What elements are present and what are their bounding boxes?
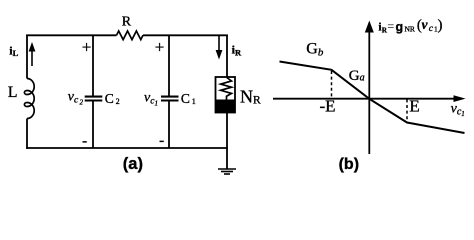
svg-text:+: +: [82, 37, 92, 56]
svg-text:R: R: [122, 15, 132, 30]
wire C1 branch lower: [168, 102, 170, 149]
wire left lower: [26, 119, 28, 149]
svg-text:E: E: [409, 96, 419, 115]
graph b: horizontal axis vC1: [273, 95, 466, 102]
svg-text:=: =: [387, 19, 394, 33]
svg-text:NR: NR: [405, 25, 415, 34]
svg-text:C1: C1: [181, 91, 196, 106]
svg-text:-: -: [82, 133, 87, 149]
wire right upper: [226, 35, 228, 78]
svg-text:-: -: [159, 133, 164, 149]
axis label formula iR = gNR(vC1): [378, 17, 442, 35]
graph b: vertical axis iR: [365, 21, 374, 155]
svg-text:g: g: [396, 20, 404, 34]
svg-text:NR: NR: [240, 86, 261, 106]
svg-text:C2: C2: [105, 91, 120, 106]
svg-text:(a): (a): [123, 155, 143, 173]
svg-text:iR: iR: [232, 43, 242, 58]
dashed line -E: [331, 71, 333, 98]
svg-text:L: L: [8, 84, 18, 101]
capacitor C2 plates: [85, 97, 103, 101]
resistor R (zigzag): [117, 31, 143, 40]
node/wire C2 branch upper: [92, 35, 94, 96]
svg-text:(b): (b): [339, 156, 359, 173]
svg-text:): ): [438, 17, 443, 33]
current arrow iL: [29, 42, 36, 66]
capacitor C1 plates: [161, 97, 179, 101]
svg-text:vc1: vc1: [144, 91, 158, 108]
inductor L coil: [24, 79, 34, 119]
svg-text:-E: -E: [320, 96, 336, 115]
wire right lower: [226, 113, 228, 169]
svg-text:iL: iL: [9, 43, 18, 58]
svg-text:vc1: vc1: [451, 101, 465, 118]
NR black region: [216, 100, 236, 113]
wire top-right segment: [143, 34, 228, 36]
wire bottom: [26, 147, 228, 149]
node/wire C1 branch upper: [168, 35, 170, 96]
svg-text:+: +: [155, 38, 165, 57]
wire C2 branch lower: [92, 102, 94, 149]
NR characteristic curve: [280, 62, 465, 134]
svg-text:v: v: [422, 17, 429, 32]
svg-text:vc2: vc2: [68, 90, 84, 107]
wire top-left segment: [26, 34, 116, 36]
current arrow iR: [216, 36, 223, 60]
dashed line E: [406, 99, 408, 122]
nonlinear resistor NR box: [216, 77, 236, 113]
svg-text:Ga: Ga: [349, 68, 365, 84]
NR zigzag: [221, 78, 232, 100]
ground: [218, 169, 236, 174]
svg-text:Gb: Gb: [306, 41, 324, 59]
wire left upper: [26, 35, 28, 79]
